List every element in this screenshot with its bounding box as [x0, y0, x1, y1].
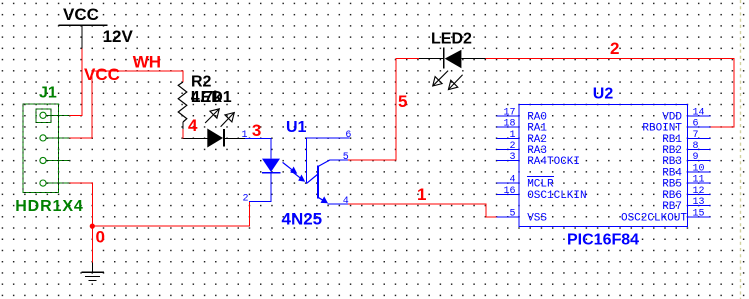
- svg-text:RB7: RB7: [662, 201, 682, 213]
- svg-text:OSC2CLKOUT: OSC2CLKOUT: [621, 212, 687, 224]
- svg-text:1: 1: [241, 130, 247, 141]
- svg-text:9: 9: [693, 152, 699, 163]
- svg-text:12V: 12V: [103, 27, 134, 46]
- svg-text:8: 8: [693, 141, 699, 152]
- svg-text:RBOINT: RBOINT: [642, 123, 682, 135]
- svg-text:3: 3: [252, 121, 261, 140]
- svg-text:16: 16: [503, 186, 515, 197]
- svg-text:J1: J1: [39, 85, 57, 102]
- svg-text:RB3: RB3: [662, 156, 682, 168]
- svg-text:6: 6: [345, 130, 351, 141]
- svg-text:VCC: VCC: [63, 5, 99, 24]
- svg-text:U2: U2: [593, 85, 614, 102]
- svg-text:RA0: RA0: [527, 111, 547, 123]
- svg-text:WH: WH: [133, 53, 161, 72]
- svg-text:5: 5: [343, 152, 349, 163]
- svg-text:RB2: RB2: [662, 145, 682, 157]
- svg-text:VDD: VDD: [662, 111, 682, 123]
- svg-text:0: 0: [96, 227, 105, 246]
- svg-text:RA3: RA3: [527, 145, 547, 157]
- svg-text:R2: R2: [191, 73, 212, 90]
- svg-text:RA1: RA1: [527, 123, 547, 135]
- svg-text:5: 5: [509, 208, 515, 219]
- svg-text:11: 11: [693, 175, 705, 186]
- svg-text:13: 13: [693, 197, 705, 208]
- svg-text:U1: U1: [286, 119, 307, 136]
- svg-text:1: 1: [417, 185, 426, 204]
- svg-text:RB1: RB1: [662, 134, 682, 146]
- svg-text:5: 5: [398, 92, 407, 111]
- svg-text:17: 17: [503, 107, 515, 118]
- svg-text:RB5: RB5: [662, 179, 682, 191]
- svg-text:VSS: VSS: [527, 212, 547, 224]
- svg-text:RB6: RB6: [662, 190, 682, 202]
- svg-text:12: 12: [693, 186, 705, 197]
- svg-text:1: 1: [509, 130, 515, 141]
- svg-text:HDR1X4: HDR1X4: [15, 198, 84, 215]
- svg-text:VCC: VCC: [84, 65, 120, 84]
- svg-text:RB4: RB4: [662, 168, 682, 180]
- svg-text:6: 6: [693, 119, 699, 130]
- svg-text:MCLR: MCLR: [527, 179, 554, 191]
- svg-text:LED2: LED2: [431, 31, 472, 48]
- svg-text:3: 3: [509, 152, 515, 163]
- svg-text:4: 4: [509, 175, 515, 186]
- svg-text:15: 15: [693, 208, 705, 219]
- svg-text:10: 10: [693, 164, 705, 175]
- svg-text:RA2: RA2: [527, 134, 547, 146]
- svg-text:2: 2: [242, 194, 248, 205]
- svg-text:4: 4: [188, 116, 198, 135]
- svg-text:2: 2: [610, 39, 619, 58]
- svg-text:RA4TOCKI: RA4TOCKI: [527, 156, 580, 168]
- svg-text:14: 14: [693, 107, 705, 118]
- svg-text:OSC1CLKIN: OSC1CLKIN: [527, 190, 586, 202]
- svg-text:4: 4: [343, 196, 349, 207]
- svg-text:4N25: 4N25: [282, 210, 323, 229]
- svg-text:7: 7: [693, 130, 699, 141]
- svg-text:2: 2: [509, 141, 515, 152]
- svg-text:18: 18: [503, 119, 515, 130]
- svg-text:PIC16F84: PIC16F84: [567, 232, 639, 249]
- svg-text:LED1: LED1: [191, 89, 232, 106]
